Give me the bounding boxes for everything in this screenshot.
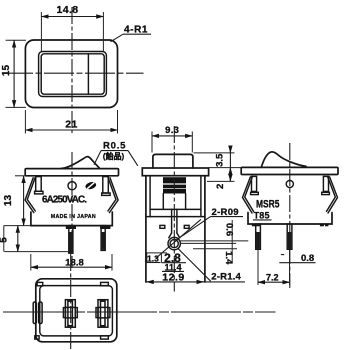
bottom top-right tab [101, 282, 109, 285]
top view bezel opening [39, 52, 107, 97]
dimension 18.8 line [31, 266, 112, 268]
bottom right terminal [98, 300, 108, 328]
svg-text:MSR5: MSR5 [256, 198, 280, 210]
right right boss [323, 176, 328, 191]
bottom left terminal bars [33, 302, 36, 324]
top view rocker edge line [87, 54, 89, 94]
front certification circle mark [68, 182, 76, 190]
side rocker hatched block [163, 177, 186, 193]
front body [31, 212, 112, 226]
right right terminal pin [287, 224, 292, 249]
right right clip spring [328, 177, 338, 213]
svg-text:18.8: 18.8 [65, 258, 84, 269]
right vertical centerline [289, 143, 291, 288]
bottom outer body [36, 279, 117, 342]
bottom bottom-left tab [35, 336, 39, 339]
dimension 14.8 line [41, 16, 103, 18]
side flange [142, 168, 208, 176]
right left boss [252, 176, 257, 191]
side knob [153, 154, 193, 168]
dimension 18.8 extension lines [30, 254, 32, 271]
bottom bottom-right tab [101, 336, 109, 339]
dimension 21 extension lines [24, 110, 26, 134]
front right boss [103, 177, 109, 193]
front left pin collar [66, 226, 76, 229]
side right contact [184, 225, 189, 228]
side inner shelf [146, 216, 205, 218]
svg-text:15: 15 [1, 65, 12, 77]
svg-text:5: 5 [0, 237, 10, 243]
dimension 3.5 extension line [194, 152, 235, 154]
front right clip spring [109, 178, 118, 213]
dimension 3.5 / 2 shared line [229, 147, 231, 182]
svg-text:7.2: 7.2 [266, 272, 279, 282]
front vertical centerline [71, 152, 73, 268]
side plunger housing [162, 194, 164, 210]
dimension 12.9 line (extends under 2-R1.4) [145, 281, 245, 283]
dimension 13 line [23, 176, 25, 226]
dimension 21 line [25, 129, 117, 131]
dimension 5 extension lines [4, 225, 31, 227]
dimension 1.4 line [193, 248, 237, 250]
right circle mark [286, 180, 293, 187]
bottom inner wall [40, 286, 113, 336]
svg-text:0.8: 0.8 [301, 253, 314, 264]
dimension 9.3 extension lines [151, 132, 153, 153]
right left terminal pin [256, 224, 261, 249]
right body [248, 213, 332, 225]
side plunger [171, 209, 173, 233]
front right terminal pin [101, 226, 105, 251]
svg-text:1.4: 1.4 [223, 251, 234, 265]
dimension 2 extension line [207, 180, 235, 182]
pin thickness tick [281, 254, 284, 256]
dimension 13 extension line [15, 175, 27, 177]
svg-text:MADE IN JAPAN: MADE IN JAPAN [51, 214, 96, 220]
top view outer body [25, 40, 117, 108]
svg-text:2: 2 [215, 184, 226, 189]
side roller circle R0.9 [168, 237, 180, 249]
svg-text:14.8: 14.8 [56, 4, 78, 16]
front rocker button profile [61, 157, 100, 169]
side left contact [160, 225, 165, 228]
bottom center terminal [65, 300, 75, 328]
top view horizontal centerline [3, 72, 144, 74]
side vertical centerline [173, 126, 175, 292]
label 0.8 [279, 262, 315, 264]
top view rocker outline [41, 54, 104, 94]
dimension 15 line [13, 41, 15, 108]
svg-text:21: 21 [65, 119, 77, 131]
right rocker profile [261, 152, 306, 167]
svg-text:9.3: 9.3 [165, 125, 179, 136]
right left standoffs [252, 224, 255, 226]
dimension 1.3 [147, 252, 168, 254]
pin extension lines [257, 250, 259, 286]
dimension 14.8 extension lines [40, 12, 42, 52]
svg-text:2-R1.4: 2-R1.4 [211, 271, 241, 282]
front flange [25, 169, 118, 176]
front S-mark oval [85, 181, 97, 191]
top view vertical centerline [71, 7, 73, 133]
front left boss [36, 177, 42, 192]
svg-text:T85: T85 [254, 211, 270, 221]
right right standoffs [320, 224, 324, 226]
front right pin collar [100, 226, 110, 229]
front left clip spring [25, 178, 34, 213]
dimension 9.3 line [152, 135, 192, 137]
side body outer walls [145, 176, 147, 282]
svg-text:0.6: 0.6 [224, 223, 235, 236]
bottom top-left tab [37, 282, 43, 285]
dimension 0.6 lines [181, 240, 249, 242]
svg-text:3.5: 3.5 [215, 153, 226, 167]
side long diagonal leader [156, 219, 202, 258]
right flange [241, 167, 338, 174]
side body inner walls [149, 176, 151, 217]
front left terminal pin [69, 226, 73, 254]
right left clip spring [243, 177, 253, 213]
svg-text:13: 13 [3, 195, 14, 207]
svg-text:(飴品): (飴品) [103, 151, 125, 161]
bottom horizontal centerline [3, 311, 276, 313]
dimension 7.2 [258, 281, 290, 283]
bottom vertical centerline [70, 254, 72, 349]
dimension 5 line [17, 226, 19, 252]
svg-text:6A250VAC.: 6A250VAC. [42, 194, 87, 205]
dimension 15 extension lines [6, 39, 27, 41]
